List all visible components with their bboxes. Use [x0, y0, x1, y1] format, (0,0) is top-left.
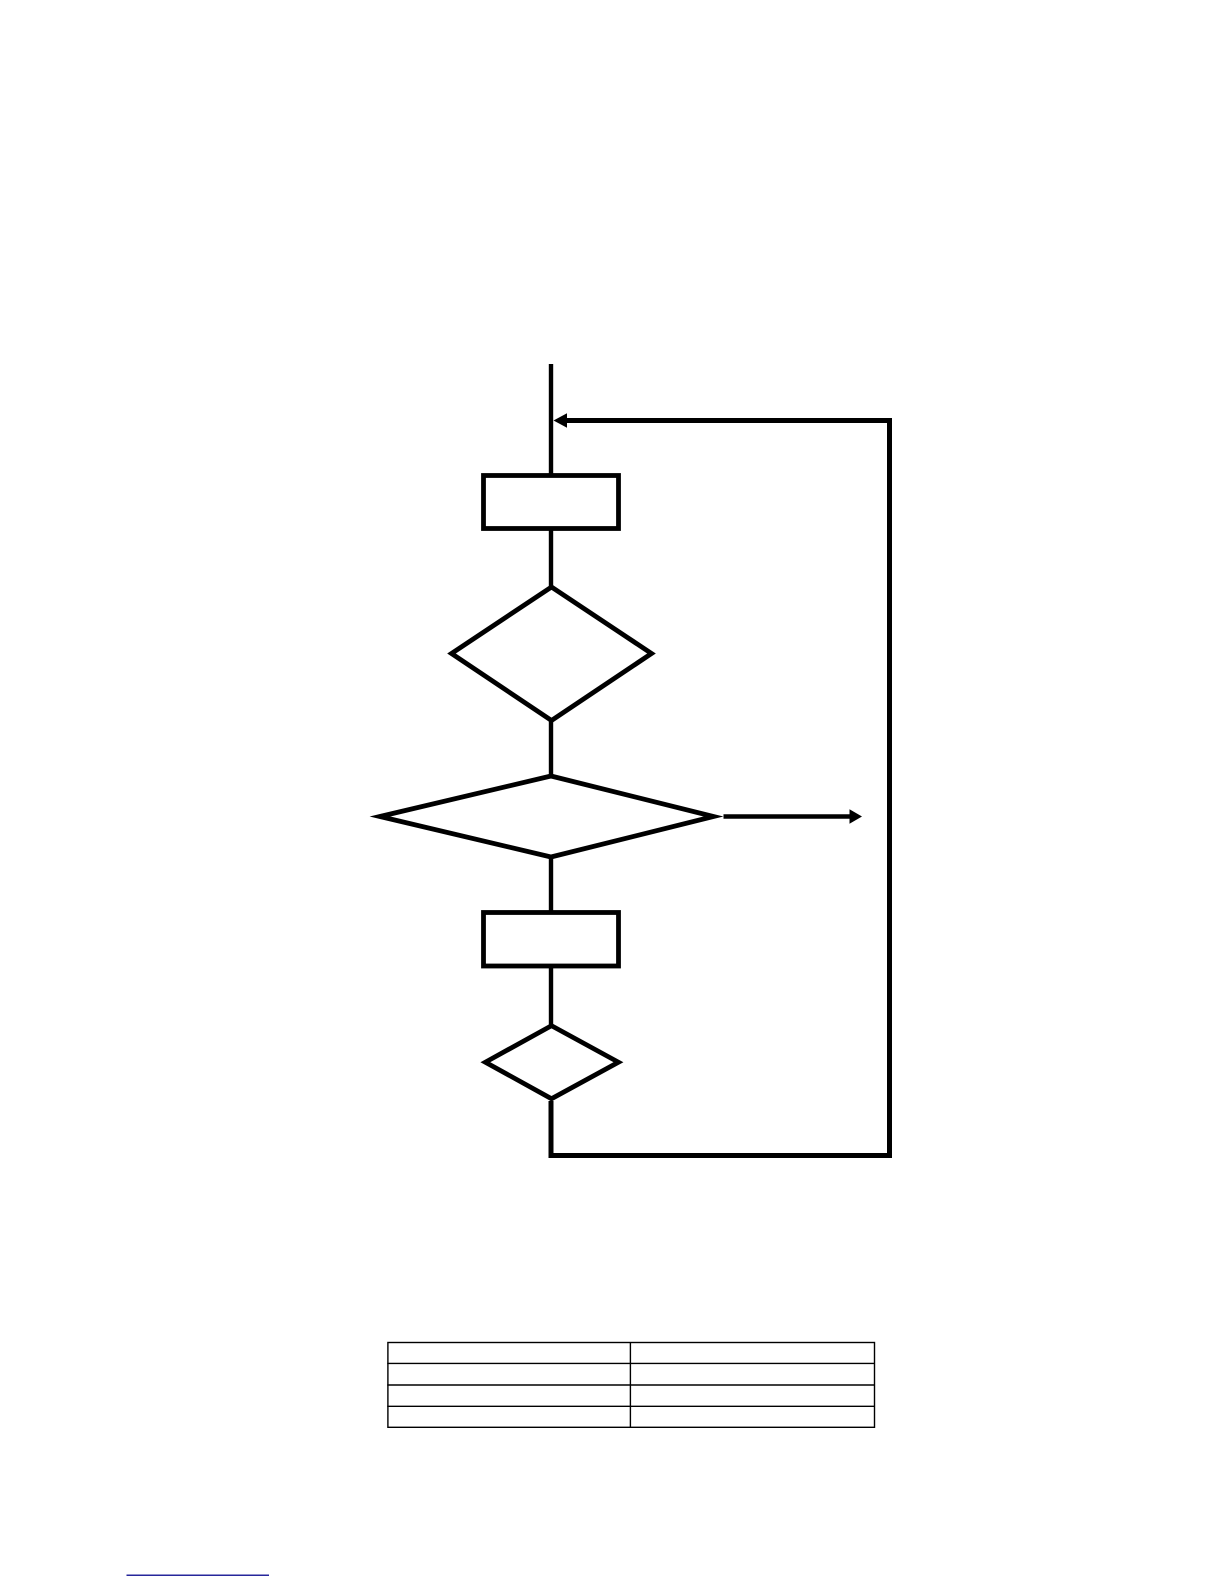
arrowhead: loop return pointing left into entry line	[554, 413, 568, 428]
decision diamond 1	[452, 587, 652, 721]
table: outer border	[388, 1343, 875, 1428]
wire: branch arrow from diamond 2 to the right	[724, 814, 851, 819]
wire: box 2 to diamond 3	[549, 966, 553, 1026]
table: row line 1	[387, 1362, 875, 1364]
table: row line 3	[387, 1405, 875, 1407]
table: center column divider	[629, 1343, 631, 1428]
wire: box 1 to diamond 1	[549, 528, 553, 588]
process box 1	[484, 476, 619, 529]
wire: feedback loop (bottom stub, bottom horizontal, right vertical, top horizontal)	[551, 421, 890, 1156]
table: row line 2	[387, 1384, 875, 1386]
arrowhead: branch arrow pointing right	[850, 809, 863, 824]
process box 2	[484, 913, 619, 967]
wire: top entry vertical line	[549, 364, 553, 476]
decision diamond 2 (wide)	[380, 776, 714, 857]
wire: diamond 1 to wide diamond 2	[549, 721, 553, 776]
footer hyperlink underline (blue)	[127, 1574, 270, 1576]
decision diamond 3 (small)	[485, 1026, 618, 1099]
wire: diamond 2 to box 2	[549, 857, 553, 913]
